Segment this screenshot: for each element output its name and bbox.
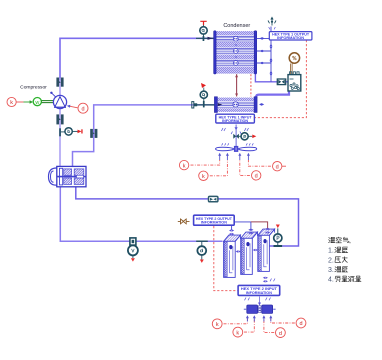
svg-text:INFORMATION: INFORMATION	[277, 36, 305, 40]
condenser fan inlet dashed lines	[191, 160, 220, 165]
fan blades	[216, 147, 235, 151]
node d2 (condenser air flow source)	[273, 162, 287, 171]
svg-text:d: d	[81, 106, 84, 112]
gauge P at evaporator outlet	[274, 225, 283, 248]
annotation digits	[328, 248, 334, 284]
node k1 (condenser air temperature source)	[179, 160, 188, 169]
line2: 1.温度	[335, 247, 341, 252]
svg-text:d: d	[299, 321, 302, 327]
svg-text:Compressor: Compressor	[20, 85, 47, 91]
sight glass on suction line	[209, 196, 218, 201]
HEX TYPE 1 INPUT INFORMATION box	[216, 114, 255, 123]
svg-text:k: k	[10, 100, 13, 106]
air arrows under condenser fan	[218, 153, 250, 160]
node d3 (evaporator air humidity source)	[276, 328, 286, 338]
svg-text:k: k	[236, 330, 239, 336]
node k4 (evaporator air pressure source)	[233, 327, 243, 337]
tee + gauge + red flag on compressor downline	[59, 128, 82, 137]
wire: compressor discharge up and right to condenser	[60, 38, 215, 80]
svg-text:Condenser: Condenser	[223, 23, 250, 29]
body bands	[216, 31, 254, 74]
svg-text:INFORMATION: INFORMATION	[201, 221, 227, 225]
compressor U1	[50, 92, 66, 109]
gauge q at subcooler inlet	[192, 83, 215, 108]
wire: receiver tank down to subcooler right header	[256, 91, 289, 99]
svg-text:d: d	[279, 331, 282, 337]
green double link w to compressor	[42, 101, 54, 103]
gauge d on evaporator feed line	[196, 241, 208, 263]
line3: 2.压力	[335, 257, 341, 263]
svg-text:d: d	[255, 174, 258, 180]
evaporator slab 3	[258, 229, 275, 271]
port fitting below compressor	[57, 115, 63, 124]
evaporator slab 2	[241, 232, 258, 274]
HEX TYPE 1 OUTPUT INFORMATION box	[269, 32, 312, 41]
svg-text:INFORMATION: INFORMATION	[222, 119, 248, 123]
node d1 (condenser air humidity source)	[252, 171, 261, 180]
node d4 (evaporator air flow source)	[296, 318, 306, 328]
gauge q at condenser inlet	[200, 21, 207, 41]
headers	[214, 31, 217, 74]
line1: 湿空气,	[329, 237, 335, 242]
green arrow into w	[24, 101, 31, 103]
node k (work source)	[7, 97, 16, 106]
arrow from node d to compressor	[70, 106, 78, 108]
svg-text:4.: 4.	[328, 277, 334, 284]
red dashed: hex2 output box down to hex2 input box	[214, 226, 238, 291]
wire: subcooler outlet left then down to plate HX	[73, 105, 215, 167]
expansion valve V1 with gauge	[128, 238, 138, 262]
air line from output box to slabs	[234, 222, 251, 231]
port fitting above compressor	[57, 78, 63, 86]
wire: plate HX to expansion valve to evaporator	[60, 187, 222, 241]
line5: 4.质量流量	[335, 276, 340, 282]
node k2 (condenser air pressure source)	[199, 171, 208, 180]
receiver tank with level gauge	[288, 53, 301, 91]
node k3 (evaporator air temperature source)	[212, 319, 222, 329]
subcooler tube-fin row HX	[214, 97, 264, 113]
evaporator fan inlet dashed lines	[224, 318, 248, 324]
maroon air line condenser-subcooler	[236, 74, 238, 96]
svg-text:3.: 3.	[328, 267, 334, 274]
svg-text:2.: 2.	[328, 257, 334, 264]
HEX TYPE 2 OUTPUT INFORMATION box	[194, 215, 235, 225]
svg-text:d: d	[276, 164, 279, 170]
HEX TYPE 2 INPUT INFORMATION box	[238, 285, 280, 295]
node d (loss)	[78, 103, 88, 113]
evaporator slab 1	[224, 235, 241, 277]
node w	[33, 98, 41, 106]
annotation: humid air properties (CJK drawn as strokes)	[329, 237, 362, 282]
evaporator fan: two ducted squares	[244, 305, 276, 313]
inlet arrow	[196, 37, 214, 39]
svg-text:k: k	[202, 174, 205, 180]
condenser fan with throttle and gauge	[216, 125, 257, 152]
line4: 3.湿度	[335, 267, 341, 272]
svg-text:1.: 1.	[328, 248, 334, 255]
plate heat exchanger HX1 (economizer)	[49, 166, 87, 186]
condenser right side circuit to output info	[257, 27, 271, 82]
vent symbol above output box	[268, 17, 276, 30]
valve bowties above slabs	[229, 228, 270, 235]
svg-text:k: k	[183, 163, 186, 169]
wire: compressor down to plate HX	[59, 109, 61, 167]
mid bowties between slabs	[236, 249, 258, 253]
svg-text:w: w	[34, 100, 39, 106]
marks between box2 and fan	[245, 297, 271, 305]
port fitting on subcooler return line	[91, 129, 97, 137]
air arrows under evap fan	[246, 315, 272, 321]
pump left of output box	[178, 219, 190, 224]
svg-text:k: k	[216, 322, 219, 328]
svg-text:INFORMATION: INFORMATION	[246, 291, 272, 295]
red dashed: hex1 output info to hex1 input info	[255, 40, 307, 118]
filter between condenser and tank	[277, 79, 285, 85]
red dashed: condenser to subcooler air path	[250, 74, 252, 96]
wire: condenser outlet to receiver	[255, 74, 288, 82]
tube rows	[216, 36, 254, 65]
wire: suction loop evaporator to plate HX (big right loop)	[76, 187, 299, 246]
bowties below slab3	[263, 277, 275, 283]
